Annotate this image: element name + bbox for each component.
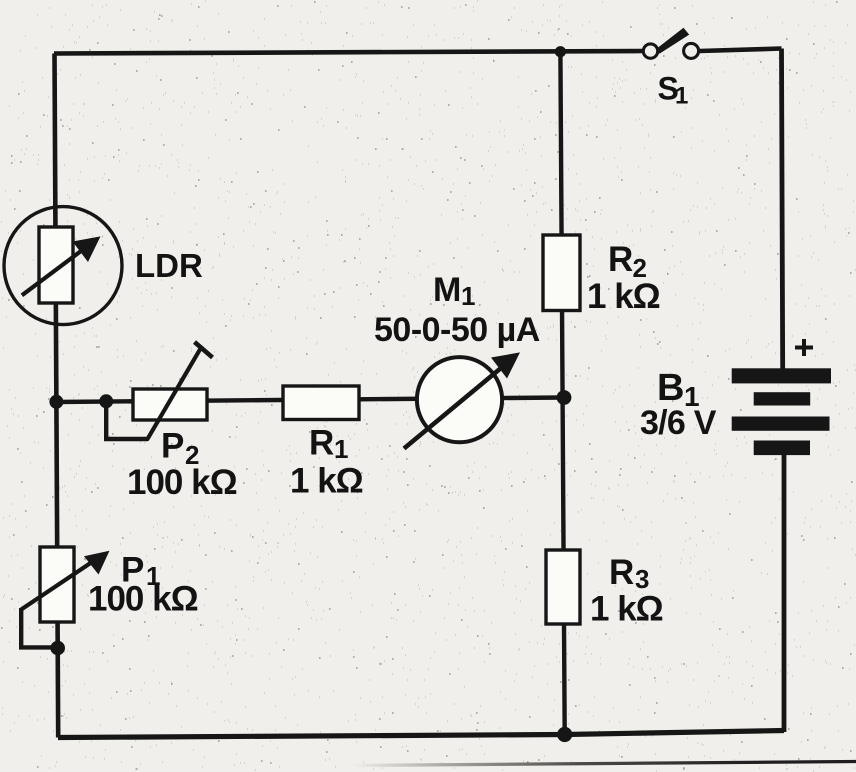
P1 body bbox=[40, 547, 74, 622]
S1 left contact bbox=[643, 44, 657, 58]
P1 wiper tap wire horizontal bbox=[19, 645, 57, 649]
potentiometer P1 bbox=[19, 547, 198, 655]
resistor R1 bbox=[283, 386, 363, 501]
svg-text:M: M bbox=[433, 271, 461, 309]
resistor R3 bbox=[546, 550, 663, 629]
wire: left vertical full bbox=[55, 54, 59, 738]
meter M1 bbox=[374, 271, 540, 449]
node: bottom junction dot bbox=[557, 727, 572, 742]
S1 right contact bbox=[684, 43, 699, 58]
resistor R2 bbox=[543, 235, 660, 316]
B1 plate 2 (narrow) bbox=[754, 392, 811, 405]
P1 wiper diagonal bbox=[21, 558, 98, 610]
P2 wiper tap wire horizontal bbox=[104, 437, 148, 441]
svg-text:50-0-50 µA: 50-0-50 µA bbox=[374, 311, 540, 349]
svg-text:1: 1 bbox=[675, 83, 688, 110]
svg-text:3/6 V: 3/6 V bbox=[640, 404, 717, 442]
LDR arrow shaft bbox=[22, 244, 91, 296]
node: middle row right junction dot bbox=[557, 390, 572, 405]
LDR circle bbox=[4, 207, 122, 325]
P2 body bbox=[133, 389, 207, 420]
LDR resistor body bbox=[39, 227, 73, 303]
P1 arrow head bbox=[84, 551, 110, 575]
svg-text:1 kΩ: 1 kΩ bbox=[587, 277, 660, 316]
node: top junction dot bbox=[555, 46, 566, 57]
switch S1 bbox=[643, 28, 698, 110]
node: middle row left junction dot (on left wire) bbox=[49, 395, 63, 409]
wire: top horizontal right segment bbox=[700, 49, 782, 52]
node: middle row second junction dot bbox=[99, 394, 113, 408]
svg-text:100 kΩ: 100 kΩ bbox=[127, 463, 237, 502]
P2 wiper T-bar bbox=[195, 342, 213, 358]
svg-text:R: R bbox=[609, 553, 634, 592]
svg-text:1 kΩ: 1 kΩ bbox=[290, 462, 363, 501]
wire: middle horizontal row bbox=[56, 398, 564, 403]
node: P1 bottom junction dot bbox=[50, 641, 65, 656]
wire: middle vertical full bbox=[560, 52, 564, 735]
battery B1 bbox=[640, 339, 831, 455]
M1 arrow head bbox=[491, 352, 520, 378]
M1 arrow shaft bbox=[404, 361, 510, 449]
svg-text:B: B bbox=[657, 367, 684, 409]
wire: bottom horizontal right segment bbox=[565, 731, 784, 735]
LDR (photoresistor) bbox=[4, 207, 203, 325]
P2 wiper tap wire vertical bbox=[104, 401, 108, 439]
wire: bottom horizontal left segment bbox=[58, 735, 565, 738]
LDR arrow head bbox=[73, 236, 101, 262]
S1 lever bbox=[655, 28, 689, 54]
wire: right vertical upper (to battery) bbox=[782, 49, 783, 372]
B1 plus sign bbox=[795, 346, 813, 350]
wire: top horizontal left segment bbox=[54, 51, 643, 54]
svg-text:LDR: LDR bbox=[135, 247, 203, 284]
svg-text:100 kΩ: 100 kΩ bbox=[88, 580, 198, 619]
B1 plate 3 (wide) bbox=[732, 417, 830, 431]
potentiometer P2 bbox=[104, 342, 237, 502]
svg-text:R: R bbox=[309, 423, 334, 462]
svg-text:P: P bbox=[161, 427, 184, 466]
wire: right vertical lower (battery to bottom) bbox=[782, 452, 787, 732]
P2 wiper diagonal bbox=[147, 346, 202, 440]
B1 plate 1 (top, wide) bbox=[732, 368, 831, 383]
svg-text:R: R bbox=[608, 240, 633, 279]
P1 wiper tap wire vertical bbox=[19, 608, 23, 647]
B1 plate 4 (narrow) bbox=[754, 441, 810, 456]
svg-text:1: 1 bbox=[334, 434, 348, 464]
svg-text:1: 1 bbox=[461, 281, 475, 311]
svg-text:1 kΩ: 1 kΩ bbox=[590, 590, 663, 629]
